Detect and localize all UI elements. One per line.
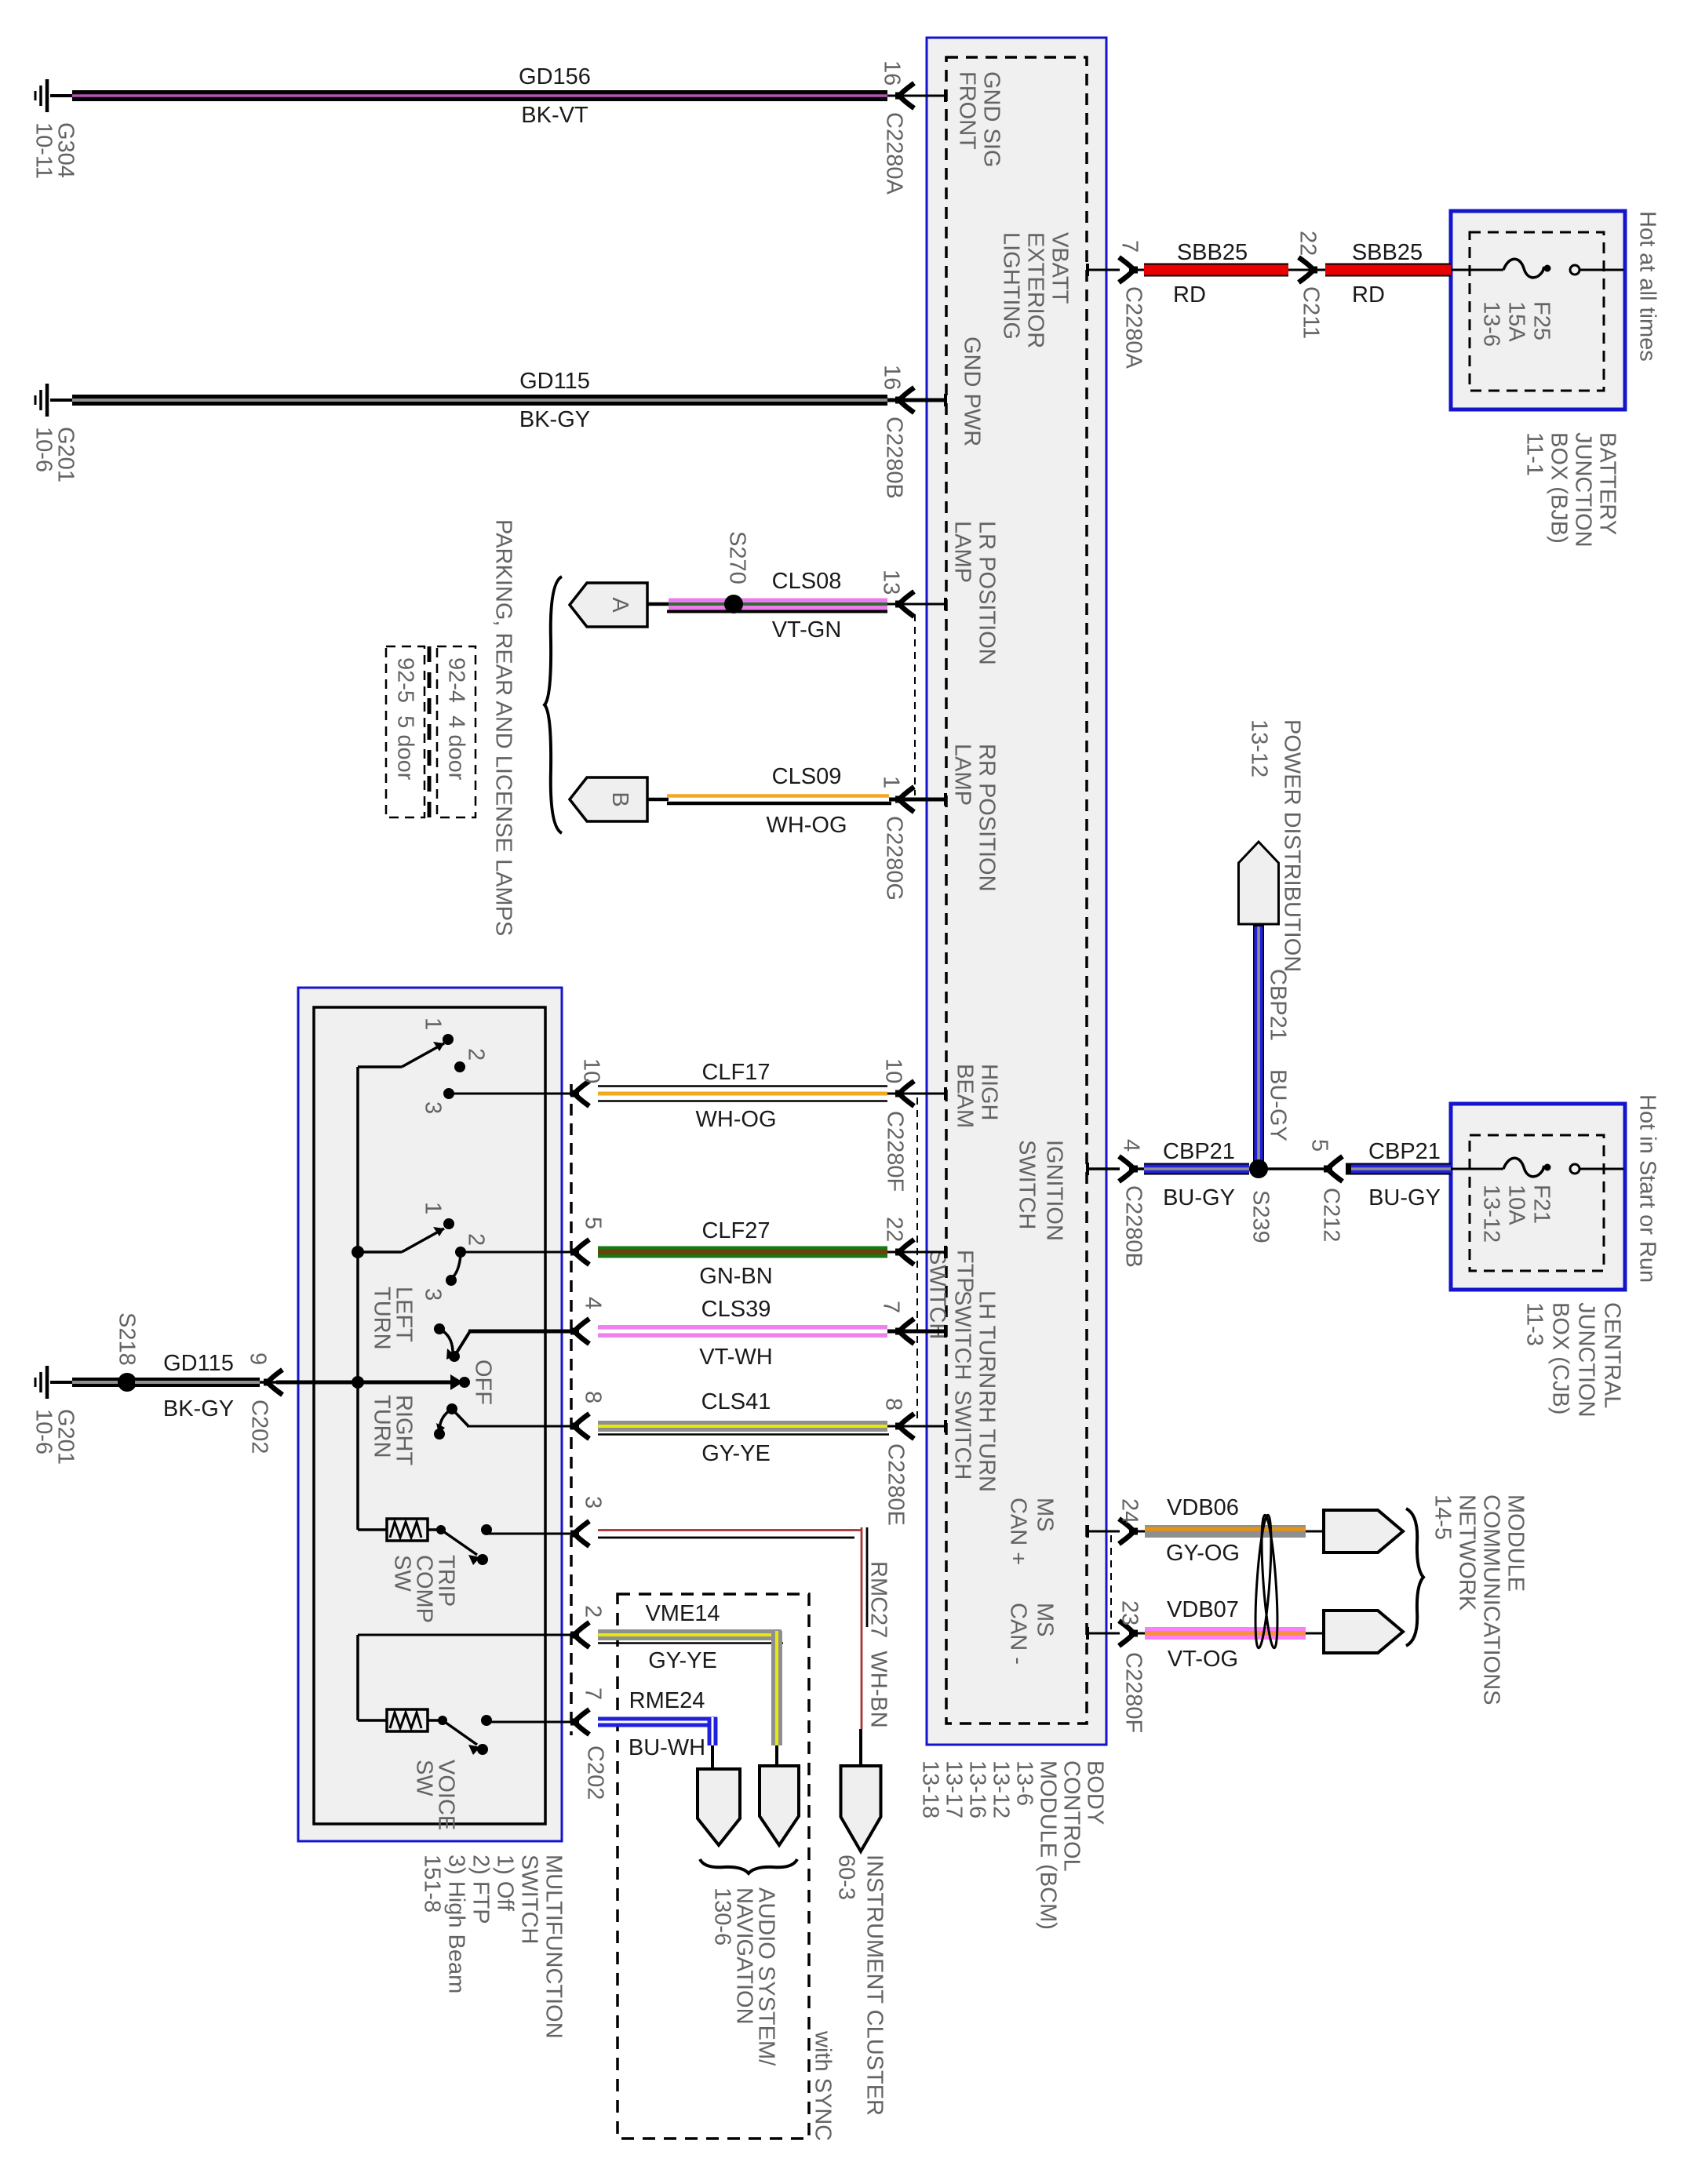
svg-text:1: 1 xyxy=(421,1202,446,1214)
svg-text:with SYNC: with SYNC xyxy=(811,2030,836,2141)
svg-text:BU-GY: BU-GY xyxy=(1368,1185,1441,1210)
pin 16 xyxy=(880,60,905,86)
connector C2280A xyxy=(882,112,907,195)
svg-text:16: 16 xyxy=(880,365,905,390)
BCM caption xyxy=(918,1760,1108,1930)
svg-text:BU-WH: BU-WH xyxy=(629,1735,705,1760)
connector pin 1 arrow xyxy=(899,787,914,812)
BCM pin LR POSITION LAMP xyxy=(950,521,1000,665)
twisted pair symbol xyxy=(1252,1515,1274,1649)
fuse F25 label xyxy=(1479,301,1554,347)
svg-text:7: 7 xyxy=(879,1301,904,1313)
label TRIP COMP SW xyxy=(390,1555,459,1623)
wire GD115 BK-GY segment 2 xyxy=(135,1378,260,1387)
svg-text:GD115: GD115 xyxy=(163,1351,234,1376)
wire VDB06 GY-OG xyxy=(1130,1531,1145,1533)
wire CLS08 VT-GN xyxy=(647,602,669,606)
svg-text:GND PWR: GND PWR xyxy=(960,337,985,446)
connector C212 xyxy=(1319,1188,1344,1242)
svg-text:VT-WH: VT-WH xyxy=(699,1345,772,1370)
svg-text:16: 16 xyxy=(880,60,905,86)
svg-text:C202: C202 xyxy=(583,1745,608,1800)
fuse F21 element xyxy=(1503,1158,1544,1177)
wire CLF27 GN-BN xyxy=(461,1251,578,1254)
svg-text:A: A xyxy=(607,597,632,613)
battery junction box BJB xyxy=(1451,211,1625,409)
svg-text:4: 4 xyxy=(581,1297,606,1309)
svg-text:S218: S218 xyxy=(115,1312,140,1366)
label Hot at all times xyxy=(1635,211,1660,362)
pin 24 xyxy=(1117,1498,1142,1523)
connector C202 dashed line (multifunction switch) xyxy=(570,1084,573,1735)
svg-text:C2280E: C2280E xyxy=(884,1443,909,1526)
svg-text:WH-OG: WH-OG xyxy=(695,1107,776,1132)
svg-text:VT-OG: VT-OG xyxy=(1168,1647,1238,1672)
connector C202 sw xyxy=(583,1745,608,1800)
splice S218 label xyxy=(115,1312,140,1366)
pin 1 xyxy=(879,776,904,788)
svg-text:10: 10 xyxy=(881,1058,906,1083)
left turn pos 1 xyxy=(421,1202,446,1214)
svg-text:24: 24 xyxy=(1117,1498,1142,1523)
label INSTRUMENT CLUSTER xyxy=(834,1855,887,2116)
connector instrument cluster xyxy=(841,1766,881,1851)
svg-text:5: 5 xyxy=(581,1217,606,1229)
svg-text:23: 23 xyxy=(1117,1600,1142,1625)
label with SYNC xyxy=(811,2030,836,2141)
splice S270 label xyxy=(725,531,750,584)
connector C2280G dashed line xyxy=(914,614,916,795)
connector A (parking lamps) xyxy=(570,583,647,627)
BCM pin HIGH BEAM xyxy=(953,1064,1002,1128)
svg-text:13: 13 xyxy=(879,570,904,595)
label RMC27 WH-BN xyxy=(866,1561,891,1728)
pin 7 xyxy=(1117,240,1142,253)
connector pin 13 arrow xyxy=(899,591,914,617)
dashed option box 92-4 4 door xyxy=(437,646,475,817)
BCM pin IGNITION SWITCH xyxy=(1015,1140,1067,1241)
central junction box CJB xyxy=(1451,1104,1625,1290)
connector C2280B b xyxy=(1121,1185,1146,1268)
svg-text:CLS08: CLS08 xyxy=(772,569,842,594)
svg-text:5: 5 xyxy=(1307,1139,1332,1152)
BCM pin LH TURN SWITCH xyxy=(950,1290,1000,1389)
high beam switch xyxy=(358,1065,402,1068)
splice S218 xyxy=(118,1373,137,1392)
LH turn contact xyxy=(434,1323,445,1334)
fuse F25 15A inside BJB xyxy=(1451,269,1503,271)
ground G304 symbol xyxy=(46,79,49,112)
svg-text:S239: S239 xyxy=(1248,1190,1273,1243)
pin 5 sw xyxy=(581,1217,606,1229)
label 92-4 4 door xyxy=(444,657,469,781)
trip computer switch xyxy=(358,1528,387,1531)
svg-text:SBB25: SBB25 xyxy=(1177,240,1248,265)
wire CLS39 VT-WH xyxy=(468,1330,578,1334)
connector C2280F xyxy=(883,1111,908,1192)
audio system dashed box xyxy=(618,1594,809,2138)
svg-text:RIGHTTURN: RIGHTTURN xyxy=(370,1395,417,1466)
connector pin 8 arrow (BCM side) xyxy=(899,1414,914,1439)
wire RME24 BU-WH xyxy=(486,1721,578,1724)
connector audio system 2 xyxy=(760,1766,799,1845)
connector pin 8 arrow (switch side) xyxy=(574,1414,589,1439)
multifunction switch bus wire xyxy=(356,1067,359,1530)
wire ignition stub xyxy=(1087,1167,1120,1170)
splice S239 xyxy=(1249,1167,1326,1170)
wire CBP21 BU-GY segment 2 xyxy=(1346,1163,1451,1175)
svg-text:92-4 4 door: 92-4 4 door xyxy=(444,657,469,781)
svg-text:CLS39: CLS39 xyxy=(701,1297,771,1322)
connector C2280F/C2280E dashed line xyxy=(916,1097,918,1421)
left turn switch xyxy=(352,1246,364,1258)
ground G201 symbol 2 xyxy=(46,1366,49,1399)
pin 8 sw xyxy=(581,1391,606,1403)
svg-text:7: 7 xyxy=(581,1687,606,1700)
svg-text:C2280A: C2280A xyxy=(882,112,907,195)
svg-text:WH-OG: WH-OG xyxy=(766,813,847,838)
connector C2280F b xyxy=(1121,1652,1146,1733)
wire CLS09 WH-OG xyxy=(647,798,669,802)
connector pin 4 C2280B arrow xyxy=(1119,1156,1134,1181)
svg-text:RH TURNSWITCH: RH TURNSWITCH xyxy=(950,1390,1000,1492)
svg-text:2: 2 xyxy=(464,1048,489,1061)
pin 3 sw xyxy=(581,1496,606,1509)
svg-text:9: 9 xyxy=(246,1352,271,1365)
connector pin 10 arrow (BCM side) xyxy=(899,1081,914,1106)
connector pin 24 arrow xyxy=(1119,1519,1134,1544)
label MULTIFUNCTION SWITCH caption xyxy=(420,1855,567,2039)
svg-text:Hot at all times: Hot at all times xyxy=(1635,211,1660,362)
wire VBATT stub xyxy=(1087,269,1120,271)
ground G304 label xyxy=(31,122,78,179)
wire MS CAN plus stub xyxy=(1087,1531,1120,1533)
svg-text:BK-VT: BK-VT xyxy=(521,103,588,128)
label CENTRAL JUNCTION BOX xyxy=(1522,1302,1625,1418)
svg-text:92-5 5 door: 92-5 5 door xyxy=(393,657,418,781)
svg-text:RD: RD xyxy=(1352,282,1385,308)
high beam pos 3 xyxy=(421,1101,446,1114)
label POWER DISTRIBUTION xyxy=(1247,719,1305,972)
svg-text:7: 7 xyxy=(1117,240,1142,253)
brace parking lamps xyxy=(545,577,562,833)
wire MS CAN minus stub xyxy=(1087,1633,1120,1635)
svg-text:CBP21: CBP21 xyxy=(1266,969,1291,1041)
svg-text:BK-GY: BK-GY xyxy=(163,1396,234,1421)
connector power distribution xyxy=(1239,842,1279,924)
connector module comm network 2 xyxy=(1324,1611,1403,1653)
connector pin 16 C2280A arrow xyxy=(899,83,914,108)
dashed option box 92-5 5 door xyxy=(386,646,424,817)
connector B (parking lamps) xyxy=(570,777,647,821)
svg-text:CLF17: CLF17 xyxy=(701,1060,770,1085)
BCM pin RH TURN SWITCH xyxy=(950,1390,1000,1492)
connector pin 10 arrow (switch side) xyxy=(574,1081,589,1106)
connector C2280F dashed line (MS CAN) xyxy=(1110,1535,1112,1629)
svg-text:BU-GY: BU-GY xyxy=(1163,1185,1235,1210)
wire VME14 GY-YE xyxy=(598,1629,782,1633)
label VOICE SW xyxy=(412,1760,459,1830)
BCM pin MS CAN minus xyxy=(1006,1603,1058,1665)
svg-text:VME14: VME14 xyxy=(645,1601,720,1626)
svg-text:S270: S270 xyxy=(725,531,750,584)
connector C212 xyxy=(1328,1156,1343,1181)
svg-text:3: 3 xyxy=(581,1496,606,1509)
svg-text:1: 1 xyxy=(879,776,904,788)
wire CLS41 GY-YE xyxy=(467,1425,578,1428)
connector C2280A b xyxy=(1121,286,1146,369)
connector pin 23 arrow xyxy=(1119,1621,1134,1646)
label CBP21 vertical xyxy=(1266,969,1291,1041)
left turn pos 2 xyxy=(464,1233,489,1246)
connector module comm network 1 xyxy=(1324,1510,1403,1552)
connector C202 xyxy=(247,1400,272,1454)
pin 4 xyxy=(1119,1139,1144,1152)
svg-text:C2280B: C2280B xyxy=(1121,1185,1146,1268)
pin 4 sw xyxy=(581,1297,606,1309)
svg-text:LH TURNSWITCH: LH TURNSWITCH xyxy=(950,1290,1000,1389)
svg-text:OFF: OFF xyxy=(471,1360,496,1405)
pin 23 xyxy=(1117,1600,1142,1625)
svg-text:2: 2 xyxy=(464,1233,489,1246)
svg-text:G30410-11: G30410-11 xyxy=(31,122,78,179)
high beam pos 1 xyxy=(421,1017,446,1030)
label Hot in Start or Run xyxy=(1635,1094,1660,1283)
connector pin 3 arrow (switch side) xyxy=(574,1521,589,1546)
label LEFT TURN xyxy=(370,1287,417,1350)
wire CLF17 WH-OG xyxy=(449,1093,578,1095)
BCM pin MS CAN plus xyxy=(1006,1498,1058,1565)
ground G201 symbol xyxy=(46,384,49,417)
svg-text:GY-YE: GY-YE xyxy=(648,1648,717,1673)
brace audio system xyxy=(700,1859,797,1873)
svg-text:F2515A13-6: F2515A13-6 xyxy=(1479,301,1554,347)
BCM pin RR POSITION LAMP xyxy=(950,744,1000,892)
svg-text:GD156: GD156 xyxy=(519,64,591,89)
high beam pos 2 xyxy=(464,1048,489,1061)
label PARKING REAR AND LICENSE LAMPS xyxy=(491,519,516,936)
svg-text:GY-YE: GY-YE xyxy=(701,1441,771,1466)
wire GD156 BK-VT xyxy=(50,94,72,97)
brace module comm network xyxy=(1406,1509,1423,1646)
svg-text:RME24: RME24 xyxy=(629,1688,705,1713)
connector pin 5 arrow (switch side) xyxy=(574,1239,589,1265)
svg-text:C212: C212 xyxy=(1319,1188,1344,1242)
svg-text:1: 1 xyxy=(421,1017,446,1030)
BCM pin FTP SWITCH xyxy=(925,1250,978,1339)
connector C2280G xyxy=(882,816,907,901)
wire RMC27 WH-BN xyxy=(486,1533,578,1535)
svg-text:BU-GY: BU-GY xyxy=(1266,1069,1291,1141)
svg-text:22: 22 xyxy=(1295,231,1321,256)
svg-text:LEFTTURN: LEFTTURN xyxy=(370,1287,417,1350)
svg-text:C2280F: C2280F xyxy=(1121,1652,1146,1733)
svg-text:CLS09: CLS09 xyxy=(772,764,842,789)
BCM pin GND PWR xyxy=(960,337,985,446)
wire SBB25 RD segment 1 xyxy=(1130,269,1451,271)
pin 7 sw xyxy=(581,1687,606,1700)
svg-text:C2280B: C2280B xyxy=(882,417,907,499)
svg-text:C2280G: C2280G xyxy=(882,816,907,901)
pin 10 sw xyxy=(579,1058,604,1083)
label MODULE COMMUNICATIONS NETWORK xyxy=(1430,1494,1529,1705)
pin 2 sw xyxy=(581,1605,606,1618)
label RIGHT TURN xyxy=(370,1395,417,1466)
connector C2280B xyxy=(882,417,907,499)
multifunction switch box xyxy=(298,988,562,1841)
BCM pin VBATT EXTERIOR LIGHTING xyxy=(999,232,1073,348)
pin 8 bcm xyxy=(881,1398,906,1410)
pin 7 bcm xyxy=(879,1301,904,1313)
label AUDIO SYSTEM NAVIGATION xyxy=(710,1887,779,2066)
BCM pin GND SIG FRONT xyxy=(955,71,1004,167)
svg-text:GY-OG: GY-OG xyxy=(1166,1541,1240,1566)
svg-text:GD115: GD115 xyxy=(519,369,590,394)
connector C211 xyxy=(1299,286,1324,339)
trip comp resistor xyxy=(387,1519,428,1541)
fuse F25 element xyxy=(1503,259,1544,278)
connector pin 9 C202 arrow xyxy=(268,1370,282,1395)
pin 13 xyxy=(879,570,904,595)
RH turn contact xyxy=(446,1403,457,1414)
svg-text:2: 2 xyxy=(581,1605,606,1618)
pin 22 bcm xyxy=(882,1217,907,1242)
svg-text:C202: C202 xyxy=(247,1400,272,1454)
svg-text:RD: RD xyxy=(1173,282,1206,308)
svg-text:VDB07: VDB07 xyxy=(1167,1597,1239,1622)
pin 22 C211 xyxy=(1295,231,1321,256)
wire GD115 BK-GY xyxy=(50,399,72,402)
connector pin 7 C2280A arrow xyxy=(1119,257,1134,282)
svg-text:C2280A: C2280A xyxy=(1121,286,1146,369)
label OFF xyxy=(471,1360,496,1405)
svg-text:8: 8 xyxy=(581,1391,606,1403)
svg-text:3: 3 xyxy=(421,1288,446,1301)
connector audio system 1 xyxy=(698,1769,740,1845)
connector pin 7 arrow (BCM side) xyxy=(899,1319,914,1344)
svg-text:C211: C211 xyxy=(1299,286,1324,339)
wire CBP21 BU-GY segment 1 xyxy=(1130,1167,1144,1170)
svg-text:B: B xyxy=(607,792,632,806)
svg-text:GN-BN: GN-BN xyxy=(699,1264,772,1289)
fuse F21 10A inside CJB xyxy=(1451,1168,1503,1170)
connector pin 7 arrow (switch side) xyxy=(574,1709,589,1734)
wire VDB07 VT-OG xyxy=(1130,1633,1145,1635)
label 92-5 5 door xyxy=(393,657,418,781)
connector pin 4 arrow (switch side) xyxy=(574,1319,589,1344)
pin 16 b xyxy=(880,365,905,390)
svg-text:3: 3 xyxy=(421,1101,446,1114)
connector pin 22 arrow (BCM side) xyxy=(899,1239,914,1265)
svg-text:22: 22 xyxy=(882,1217,907,1242)
svg-text:4: 4 xyxy=(1119,1139,1144,1152)
fuse F21 label xyxy=(1479,1185,1554,1243)
voice sw resistor xyxy=(387,1709,428,1731)
svg-text:10: 10 xyxy=(579,1058,604,1083)
left turn pos 3 xyxy=(421,1288,446,1301)
svg-text:PARKING, REAR AND LICENSE LAMP: PARKING, REAR AND LICENSE LAMPS xyxy=(491,519,516,936)
label BU-GY vertical xyxy=(1266,1069,1291,1141)
body control module BCM box xyxy=(927,38,1106,1745)
splice S270 xyxy=(724,595,743,613)
connector C211 xyxy=(1299,257,1314,282)
svg-text:BK-GY: BK-GY xyxy=(519,407,590,432)
option divider dashed line xyxy=(428,646,432,817)
connector pin 16 C2280B arrow xyxy=(899,388,914,413)
splice S239 label xyxy=(1248,1190,1273,1243)
svg-text:VDB06: VDB06 xyxy=(1167,1495,1239,1520)
svg-text:HIGHBEAM: HIGHBEAM xyxy=(953,1064,1002,1128)
pin 5 C212 xyxy=(1307,1139,1332,1152)
pin 10 bcm xyxy=(881,1058,906,1083)
label BATTERY JUNCTION BOX xyxy=(1522,432,1620,548)
svg-text:VT-GN: VT-GN xyxy=(772,617,842,642)
connector pin 2 arrow (switch side) xyxy=(574,1622,589,1647)
pin 9 xyxy=(246,1352,271,1365)
ground G201 label xyxy=(31,427,78,482)
ground G201 label 2 xyxy=(31,1409,78,1465)
svg-text:CBP21: CBP21 xyxy=(1163,1139,1235,1164)
svg-text:RMC27 WH-BN: RMC27 WH-BN xyxy=(866,1561,891,1728)
OFF contact xyxy=(276,1381,459,1385)
svg-text:SBB25: SBB25 xyxy=(1352,240,1423,265)
wire GD115 BK-GY to S218 xyxy=(50,1381,72,1384)
svg-text:CLF27: CLF27 xyxy=(701,1218,770,1243)
wire SBB25 RD segment 2 xyxy=(1325,264,1451,277)
connector C2280E xyxy=(884,1443,909,1526)
svg-text:Hot in Start or Run: Hot in Start or Run xyxy=(1635,1094,1660,1283)
svg-text:CLS41: CLS41 xyxy=(701,1389,771,1414)
wire CBP21 BU-GY vertical xyxy=(1253,924,1264,1164)
svg-text:8: 8 xyxy=(881,1398,906,1410)
svg-text:CBP21: CBP21 xyxy=(1368,1139,1441,1164)
svg-text:C2280F: C2280F xyxy=(883,1111,908,1192)
voice switch branch xyxy=(358,1634,578,1636)
